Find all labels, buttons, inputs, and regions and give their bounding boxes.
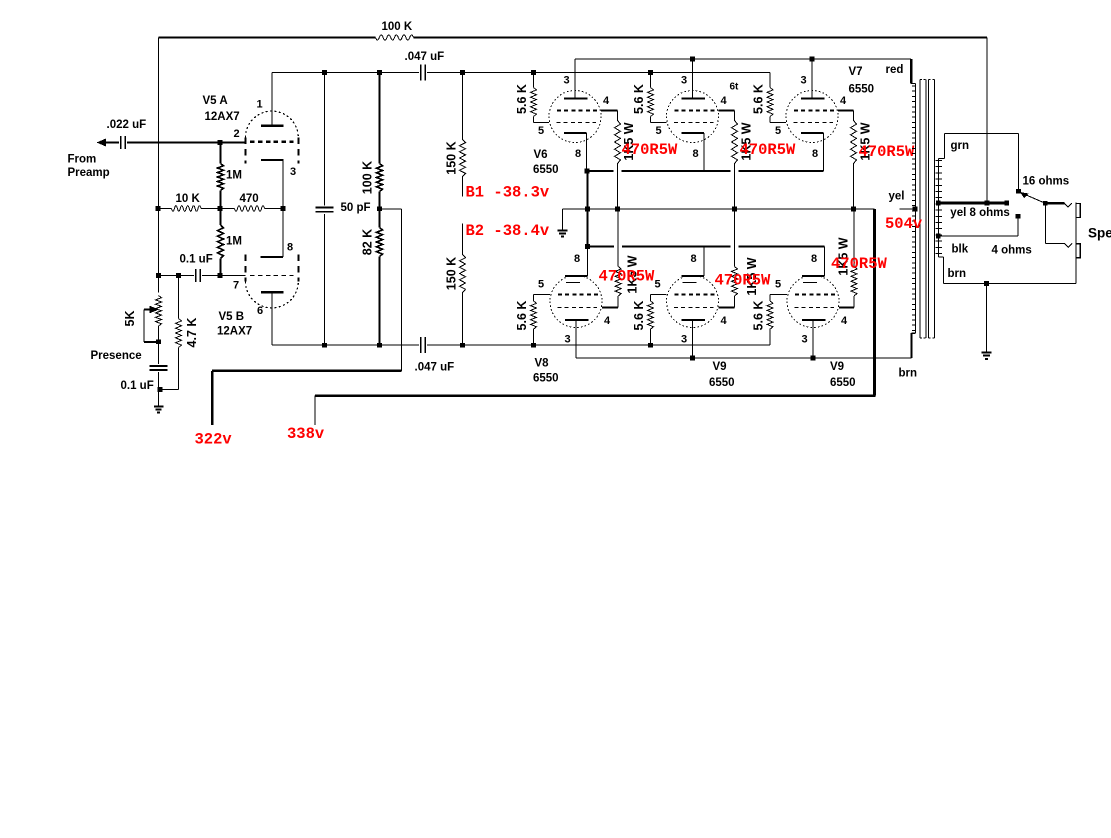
svg-text:3: 3 [564,75,570,87]
svg-text:3: 3 [290,166,296,178]
svg-text:5.6 K: 5.6 K [515,301,529,331]
svg-text:5: 5 [775,125,781,137]
svg-text:4.7 K: 4.7 K [185,318,199,348]
svg-text:5: 5 [538,279,544,291]
svg-text:6550: 6550 [830,377,856,389]
svg-text:4: 4 [721,315,728,327]
svg-text:V6: V6 [534,149,548,161]
svg-text:.047 uF: .047 uF [415,362,455,374]
svg-text:100 K: 100 K [382,21,413,33]
svg-text:3: 3 [681,75,687,87]
svg-text:8: 8 [812,148,818,160]
svg-text:1: 1 [257,99,263,111]
svg-text:1M: 1M [226,236,242,248]
svg-text:4: 4 [840,95,847,107]
svg-text:2: 2 [234,128,240,140]
svg-text:5.6 K: 5.6 K [632,84,646,114]
svg-text:V5 A: V5 A [203,95,228,107]
svg-text:338v: 338v [287,425,325,443]
svg-text:12AX7: 12AX7 [205,111,240,123]
svg-text:6550: 6550 [533,164,559,176]
svg-text:3: 3 [565,334,571,346]
svg-text:Preamp: Preamp [68,167,110,179]
svg-text:470R5W: 470R5W [831,255,888,273]
svg-text:0.1 uF: 0.1 uF [180,254,213,266]
svg-text:4: 4 [841,315,848,327]
svg-text:470R5W: 470R5W [740,141,797,159]
svg-text:3: 3 [801,75,807,87]
svg-text:5.6 K: 5.6 K [752,301,766,331]
svg-text:8: 8 [691,253,697,265]
svg-text:100 K: 100 K [361,161,375,194]
svg-text:8: 8 [287,242,293,254]
svg-text:5: 5 [775,279,781,291]
svg-text:3: 3 [681,334,687,346]
svg-text:blk: blk [952,244,969,256]
svg-text:150 K: 150 K [445,257,459,290]
svg-text:150 K: 150 K [445,141,459,174]
svg-text:4: 4 [604,315,611,327]
svg-text:6: 6 [257,305,263,317]
svg-text:B2 -38.4v: B2 -38.4v [466,222,550,240]
svg-text:V7: V7 [849,66,863,78]
svg-text:8: 8 [574,253,580,265]
svg-text:6550: 6550 [849,84,875,96]
svg-text:5.6 K: 5.6 K [515,84,529,114]
svg-text:470R5W: 470R5W [859,143,916,161]
svg-text:yel: yel [889,191,905,203]
svg-text:16 ohms: 16 ohms [1023,176,1070,188]
svg-text:322v: 322v [195,431,233,449]
svg-text:12AX7: 12AX7 [217,326,252,338]
svg-text:V5 B: V5 B [219,311,245,323]
svg-text:Spe: Spe [1088,226,1111,241]
svg-text:82 K: 82 K [361,229,375,255]
svg-text:V9: V9 [713,361,727,373]
svg-text:10 K: 10 K [176,193,201,205]
svg-text:B1 -38.3v: B1 -38.3v [466,184,550,202]
svg-text:red: red [886,64,904,76]
svg-text:6t: 6t [730,82,740,93]
svg-text:5K: 5K [123,311,137,327]
svg-text:brn: brn [948,268,967,280]
svg-text:V8: V8 [535,358,550,370]
svg-text:yel 8 ohms: yel 8 ohms [950,207,1009,219]
svg-text:504v: 504v [885,215,923,233]
svg-text:470R5W: 470R5W [622,141,679,159]
svg-text:50 pF: 50 pF [341,202,371,214]
svg-text:1M: 1M [226,170,242,182]
svg-text:470R5W: 470R5W [599,268,656,286]
svg-text:6550: 6550 [533,373,559,385]
svg-text:6550: 6550 [709,377,735,389]
svg-text:brn: brn [899,368,918,380]
svg-text:5: 5 [656,125,662,137]
svg-text:5.6 K: 5.6 K [752,84,766,114]
svg-text:4 ohms: 4 ohms [992,245,1032,257]
svg-text:grn: grn [951,140,970,152]
svg-text:8: 8 [693,148,699,160]
svg-text:3: 3 [802,334,808,346]
svg-text:7: 7 [233,280,239,292]
svg-text:8: 8 [811,253,817,265]
svg-text:0.1 uF: 0.1 uF [121,380,154,392]
svg-text:5: 5 [655,279,661,291]
svg-text:From: From [68,154,97,166]
svg-text:.022 uF: .022 uF [107,119,147,131]
svg-text:5: 5 [538,125,544,137]
svg-text:4: 4 [721,95,728,107]
svg-text:4: 4 [603,95,610,107]
svg-text:470R5W: 470R5W [715,272,772,290]
svg-text:8: 8 [575,148,581,160]
svg-text:Presence: Presence [91,350,142,362]
svg-text:.047 uF: .047 uF [405,51,445,63]
svg-text:470: 470 [240,193,259,205]
svg-text:V9: V9 [830,361,844,373]
svg-text:5.6 K: 5.6 K [632,301,646,331]
